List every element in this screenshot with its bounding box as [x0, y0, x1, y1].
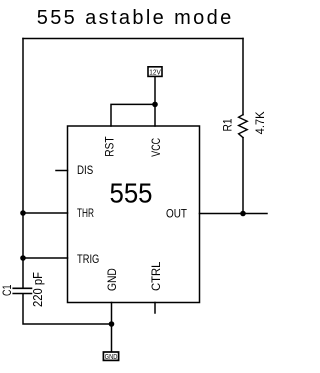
svg-text:GND: GND	[105, 352, 118, 361]
svg-text:R1: R1	[221, 118, 235, 131]
svg-text:DIS: DIS	[77, 163, 93, 177]
svg-text:GND: GND	[105, 268, 119, 291]
svg-text:CTRL: CTRL	[149, 261, 163, 291]
svg-text:RST: RST	[102, 136, 116, 157]
svg-text:TRIG: TRIG	[77, 252, 99, 266]
svg-text:4.7K: 4.7K	[253, 111, 267, 134]
svg-text:220 pF: 220 pF	[31, 272, 45, 307]
svg-text:12V: 12V	[149, 67, 161, 76]
svg-text:VCC: VCC	[149, 138, 163, 157]
svg-text:555 astable mode: 555 astable mode	[37, 7, 232, 29]
svg-text:555: 555	[110, 177, 153, 208]
svg-text:THR: THR	[77, 206, 94, 220]
svg-text:OUT: OUT	[166, 207, 188, 221]
svg-text:C1: C1	[0, 284, 14, 296]
